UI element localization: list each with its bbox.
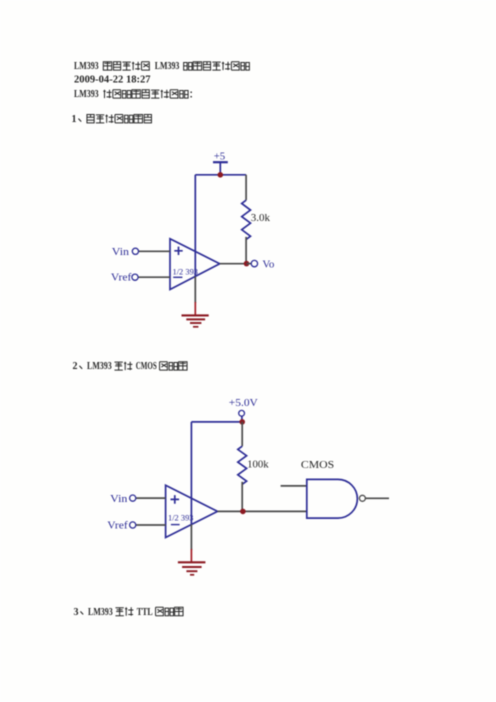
terminal +5.0V	[239, 410, 245, 416]
node output junction	[244, 261, 250, 267]
wire +5 rail to resistor R1	[245, 175, 247, 200]
ground symbol circuit 1	[182, 315, 209, 326]
text: section 2 LM393 drives CMOS	[73, 361, 188, 372]
op-amp U2 non-inverting input plus sign	[171, 495, 180, 504]
text: section 1 basic comparator	[72, 114, 152, 125]
svg-text:100k: 100k	[247, 459, 269, 470]
ground symbol circuit 2	[178, 562, 206, 575]
svg-text:LM393: LM393	[74, 89, 99, 100]
svg-text:Vref: Vref	[111, 273, 132, 284]
svg-text:+5.0V: +5.0V	[229, 397, 258, 409]
wire +5.0V stub	[241, 416, 243, 422]
text: section 3 LM393 drives TTL	[74, 607, 184, 618]
svg-text:1/2 393: 1/2 393	[173, 267, 199, 277]
wire op-amp U2 V- pin to ground	[190, 524, 192, 550]
svg-text:2: 2	[73, 361, 78, 372]
wire Vin to op-amp U2	[136, 497, 166, 499]
op-amp U2 V+ pin segment	[190, 498, 192, 524]
wire op-amp U1 output	[220, 263, 247, 265]
terminal Vin circuit 2	[130, 495, 136, 501]
net label +5.0V	[229, 397, 258, 409]
op-amp U1 inverting input minus sign	[173, 276, 182, 278]
text: LM393 circuit types line	[74, 89, 192, 100]
wire +5.0V rail to resistor R2	[241, 422, 243, 446]
op-amp U2 inverting input minus sign	[171, 524, 180, 526]
label R2 value 100k	[247, 459, 269, 470]
terminal Vin	[132, 248, 138, 254]
svg-text:Vo: Vo	[262, 260, 274, 271]
NAND gate U3 body	[307, 479, 358, 518]
wire op-amp U1 V- pin to ground	[194, 276, 196, 303]
wire NAND gate top input stub	[281, 485, 307, 487]
wire +5 rail	[195, 174, 246, 176]
svg-text:Vin: Vin	[110, 494, 128, 505]
terminal Vref	[132, 274, 138, 280]
resistor R1	[242, 200, 251, 239]
svg-text:3.0k: 3.0k	[251, 213, 271, 224]
text: date 2009-04-22 18:27	[74, 74, 151, 85]
wire V+ supply to op-amp U2	[190, 422, 192, 525]
svg-text:Vref: Vref	[107, 520, 128, 531]
svg-text:1: 1	[72, 114, 77, 125]
svg-text:Vin: Vin	[112, 247, 130, 258]
svg-text:3: 3	[74, 607, 79, 618]
wire Vref to op-amp U1	[138, 276, 170, 278]
svg-text:LM393: LM393	[87, 361, 112, 372]
wire Vref to op-amp U2	[136, 524, 166, 526]
power bar +5	[213, 161, 228, 163]
NAND gate U3 inversion bubble	[359, 495, 365, 501]
svg-text:+5: +5	[214, 151, 226, 163]
svg-text:LM393: LM393	[88, 607, 113, 618]
wire Vin to op-amp U1	[139, 250, 171, 252]
node output junction circuit 2	[240, 509, 246, 515]
wire +5.0V rail	[191, 421, 242, 423]
terminal Vo	[251, 260, 257, 266]
text: title line LM393 applications	[74, 61, 249, 72]
svg-text:TTL: TTL	[137, 607, 153, 618]
wire +5 stub	[219, 162, 221, 175]
label CMOS	[301, 459, 334, 471]
op-amp U1 V+ pin segment	[194, 251, 196, 276]
net label +5	[214, 151, 226, 163]
svg-text:LM393: LM393	[155, 61, 180, 72]
resistor R2	[238, 446, 247, 484]
wire resistor R1 to output node	[245, 237, 247, 264]
node junction on +5.0V rail	[239, 419, 245, 425]
wire output node to terminal Vo	[247, 263, 252, 265]
wire op-amp U2 output to NAND gate	[218, 510, 307, 512]
wire V+ supply to op-amp U1	[194, 175, 196, 277]
label Vo	[262, 260, 274, 271]
op-amp U2 1/2 LM393 triangle	[166, 485, 218, 537]
label R1 value 3.0k	[251, 213, 271, 224]
label Vin	[112, 247, 130, 258]
terminal Vref circuit 2	[130, 522, 136, 528]
svg-text:2009-04-22 18:27: 2009-04-22 18:27	[74, 74, 151, 85]
wire resistor R2 to output node	[241, 482, 243, 512]
svg-text:CMOS: CMOS	[301, 459, 334, 471]
node junction on +5 rail	[218, 172, 224, 178]
label Vin circuit 2	[110, 494, 128, 505]
svg-text:LM393: LM393	[74, 61, 99, 72]
wire NAND gate output	[365, 497, 389, 499]
svg-text:CMOS: CMOS	[136, 361, 157, 372]
op-amp U1 non-inverting input plus sign	[174, 247, 182, 255]
label Vref circuit 2	[107, 520, 128, 531]
op-amp U1 1/2 LM393 triangle	[170, 239, 220, 290]
label Vref	[111, 273, 132, 284]
op-amp U1 part label 1/2 393	[173, 267, 199, 277]
svg-text:1/2 393: 1/2 393	[168, 512, 194, 522]
op-amp U2 part label 1/2 393	[168, 512, 194, 522]
